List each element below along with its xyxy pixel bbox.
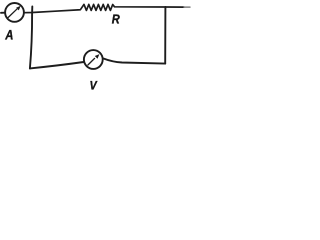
svg-text:V: V <box>90 80 98 92</box>
svg-text:R: R <box>112 12 121 27</box>
svg-text:A: A <box>4 28 13 43</box>
